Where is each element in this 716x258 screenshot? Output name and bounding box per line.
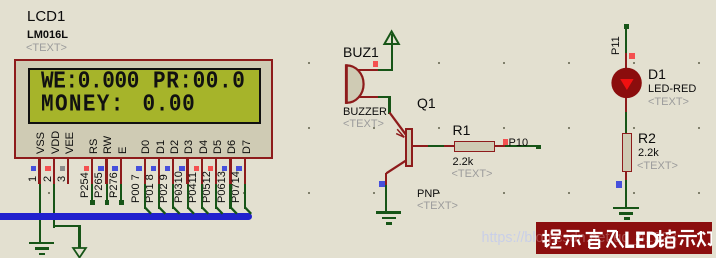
LCD pin 9 (D2)	[172, 158, 174, 184]
wire: D2 to bus	[172, 184, 174, 209]
pin 14 state square	[236, 166, 241, 171]
pin 7 state square	[136, 166, 141, 171]
data bus D0-D7	[0, 213, 252, 220]
resistor R1 body	[454, 141, 495, 151]
LCD pin name label E	[118, 147, 129, 154]
wire: VDD horizontal run	[53, 225, 81, 227]
pin 6 state square	[112, 166, 117, 171]
LCD LCD1 value label LM016L	[27, 30, 68, 42]
LCD pin 5 (RW)	[105, 158, 107, 184]
LCD pin 13 (D6)	[229, 158, 231, 184]
wire: RW stub	[106, 184, 108, 201]
LCD LCD1 property label	[26, 43, 67, 55]
terminal label P11 (rotated)	[611, 36, 622, 55]
LCD pin name label VEE	[65, 132, 76, 154]
pin 12 state square	[208, 166, 213, 171]
R1 property label	[452, 169, 493, 181]
LCD pin 7 (D0)	[144, 158, 146, 184]
LCD pin 2 (VDD)	[53, 158, 55, 184]
wire: D7 to bus	[244, 184, 246, 209]
pin 2 state square	[45, 166, 50, 171]
node dot RW	[105, 200, 110, 205]
pin 13 label P0613	[217, 171, 228, 203]
terminal label P10	[509, 138, 529, 150]
pin 6 label P276	[109, 172, 120, 198]
LCD pin 4 (RS)	[91, 158, 93, 184]
PNP type label	[417, 189, 440, 201]
wire: R2 to ground	[625, 180, 627, 207]
pin 8 label P01 8	[145, 174, 156, 203]
ground (LCD VSS)	[29, 242, 54, 245]
pin 14 label P0714	[231, 171, 242, 203]
pin 13 state square	[222, 166, 227, 171]
pin 10 state square	[179, 166, 184, 171]
wire: LED to R2	[625, 112, 627, 134]
LCD pin name label VSS	[36, 132, 47, 154]
LCD pin name label D7	[242, 140, 253, 154]
LCD pin name label D2	[170, 140, 181, 154]
R2 property label	[637, 161, 678, 173]
pin 9 label P02 9	[159, 174, 170, 203]
LCD pin name label D1	[156, 140, 167, 154]
watermark text	[482, 230, 678, 246]
LCD screen text line 2: MONEY: 0.00	[0, 0, 1, 1]
node dot E	[119, 200, 124, 205]
LCD pin 12 (D5)	[215, 158, 217, 184]
LCD LCD1 screen	[28, 68, 261, 125]
BUZ1 reference label	[343, 45, 379, 60]
LCD pin name label D3	[184, 140, 195, 154]
R1 right pin stub	[495, 145, 505, 147]
LCD pin 14 (D7)	[244, 158, 246, 184]
buzzer property label	[343, 119, 384, 131]
R2 reference label	[638, 131, 656, 146]
pin 10 label P0310	[174, 171, 185, 203]
wire: D6 to bus	[229, 184, 231, 209]
LCD pin 1 (VSS)	[38, 158, 40, 184]
LCD pin name label D6	[227, 140, 238, 154]
LED D1 anode pin stub	[625, 53, 627, 68]
pin 7 label P00 7	[131, 174, 142, 203]
R1 value label 2.2k	[453, 157, 474, 169]
pin 5 label P265	[94, 172, 105, 198]
LCD pin name label VDD	[51, 131, 62, 154]
blue state square at R2 bottom	[616, 181, 622, 187]
terminal square P10	[536, 145, 541, 150]
LCD LCD1 reference label	[27, 9, 65, 25]
blue state square at collector	[379, 181, 385, 187]
transistor property label	[417, 201, 458, 213]
wire: buzzer bottom to transistor (green part)	[378, 96, 391, 98]
D1 property label	[648, 97, 689, 109]
LCD LCD1 body	[14, 59, 273, 160]
LCD pin name label RS	[89, 139, 100, 154]
transistor collector stub down	[385, 173, 387, 186]
LCD pin 6 (E)	[120, 158, 122, 184]
LCD pin name label D5	[213, 140, 224, 154]
D1 reference label	[648, 67, 666, 82]
R1 reference label	[453, 123, 471, 138]
pin 1 state square	[31, 166, 36, 171]
pin 4 state square	[84, 166, 89, 171]
red state square at BUZ1	[373, 61, 378, 66]
resistor R2 body	[622, 133, 632, 172]
pin 3 state square	[60, 166, 65, 171]
transistor Q1 base bar	[405, 128, 413, 167]
wire: VDD down to power arrow	[78, 225, 80, 248]
pin 4 label P254	[80, 172, 91, 198]
pin 5 state square	[98, 166, 103, 171]
wire: D0 to bus	[144, 184, 146, 209]
pin 11 state square	[194, 166, 199, 171]
wire: P11 terminal down	[625, 29, 627, 53]
LCD pin name label RW	[103, 136, 114, 154]
grid dots	[0, 0, 716, 1]
wire: D3 to bus	[187, 184, 189, 209]
pin 2 label 2	[43, 176, 54, 182]
Q1 reference label	[417, 96, 436, 111]
ground (R2)	[613, 207, 639, 210]
LCD pin name label D0	[141, 140, 152, 154]
LCD pin 11 (D4)	[201, 158, 203, 184]
wire: RS stub	[91, 184, 93, 201]
LCD screen text line 1: WE:0.000 PR:00.0	[0, 0, 1, 1]
wire: pin1 VSS to ground	[39, 184, 41, 242]
pin 9 state square	[165, 166, 170, 171]
wire: D5 to bus	[215, 184, 217, 209]
pin 11 label P0411	[188, 172, 199, 203]
pin 3 label 3	[57, 176, 68, 182]
node dot RS	[90, 200, 95, 205]
buzzer bottom pin stub	[358, 96, 378, 98]
pin 1 label 1	[28, 176, 39, 182]
transistor base stub to R1	[413, 145, 428, 147]
LCD pin 10 (D3)	[186, 158, 188, 184]
LCD pin name label D4	[199, 140, 210, 154]
terminal square P11	[624, 24, 629, 29]
wire: base to R1	[428, 145, 445, 147]
wire: collector to ground	[385, 185, 387, 212]
red state square at P10	[503, 139, 508, 144]
R2 bottom pin stub	[625, 172, 627, 180]
ground (transistor collector)	[376, 211, 401, 214]
pin 8 state square	[151, 166, 156, 171]
LCD pin 8 (D1)	[158, 158, 160, 184]
wire: E stub	[120, 184, 122, 201]
red state square at P11	[629, 53, 635, 59]
LED D1 cathode pin stub	[625, 98, 627, 112]
buzzer top pin stub	[358, 69, 378, 71]
wire: R1 to P10 terminal	[505, 145, 538, 147]
wire: D4 to bus	[201, 184, 203, 209]
BUZZER type label	[343, 107, 387, 119]
D1 value label LED-RED	[648, 84, 696, 96]
wire: power arrow down to buzzer top	[391, 34, 393, 72]
LCD pin 3 (VEE)	[67, 158, 69, 184]
caption banner 提示音及LED指示灯	[536, 222, 712, 255]
wire: D1 to bus	[158, 184, 160, 209]
wire: buzzer top pin horizontal (green part)	[378, 69, 392, 71]
R2 value label 2.2k	[638, 148, 659, 160]
R1 left pin stub	[444, 145, 454, 147]
pin 12 label P0512	[202, 171, 213, 203]
wire: pin2 VDD down	[53, 184, 55, 228]
